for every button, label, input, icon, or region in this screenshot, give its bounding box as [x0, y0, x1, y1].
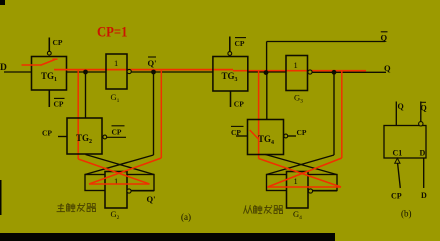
- svg-text:CP: CP: [231, 128, 241, 137]
- wire Q'bar down: [153, 72, 155, 155]
- svg-text:Q: Q: [421, 104, 427, 113]
- D flip-flop symbol block: [384, 126, 426, 159]
- wire junction down to TG4: [266, 73, 268, 120]
- pin CP of TG4 (right, bubble): [284, 128, 307, 138]
- svg-text:Q: Q: [381, 33, 388, 43]
- master latch loop wire (wide rectangle): [85, 175, 154, 191]
- wire diagonal right-to-left into master latch: [85, 155, 154, 175]
- wire junction down: [333, 72, 335, 155]
- label master latch (Chinese 主触发器): [57, 203, 96, 211]
- red vertical through TG4: [258, 71, 260, 159]
- svg-text:1: 1: [114, 58, 118, 68]
- svg-text:CP: CP: [42, 129, 52, 138]
- red diagonal left-to-right: [259, 159, 341, 188]
- dynamic edge triangle on C1: [395, 158, 400, 163]
- red crossover base wire: [268, 186, 342, 188]
- transmission gate TG2: [67, 118, 102, 154]
- svg-text:CP: CP: [54, 100, 64, 109]
- wire diagonal right-to-left into slave latch: [267, 155, 335, 175]
- junction at x=85.5: [83, 70, 88, 75]
- svg-text:CP: CP: [297, 128, 307, 137]
- wire junction down to TG2: [85, 72, 87, 118]
- svg-text:CP: CP: [234, 99, 244, 108]
- red switch path in TG1: [22, 59, 58, 65]
- node Qbar: [381, 32, 388, 43]
- red vertical feedback (right): [160, 70, 162, 158]
- wire TG4 bottom diagonal left-to-right: [266, 155, 337, 175]
- inverter G3: [286, 56, 312, 91]
- pin CP of TG3 (bottom): [231, 91, 245, 108]
- wire CP to block: [398, 163, 401, 188]
- pin Qbar of block: [419, 102, 427, 127]
- inverter G1: [106, 54, 131, 89]
- bubble of G4: [308, 189, 312, 193]
- left edge artifact: [0, 180, 2, 215]
- inverter G2: [105, 172, 127, 209]
- wire G2 bubble to loop corner: [131, 190, 154, 192]
- svg-text:(a): (a): [181, 212, 191, 222]
- transmission gate TG3: [213, 57, 248, 92]
- wire TG2 bottom diagonal left-to-right: [86, 155, 155, 175]
- svg-text:D: D: [420, 149, 426, 158]
- wire TG1 to G1: [67, 71, 107, 73]
- svg-text:1: 1: [294, 176, 298, 186]
- inverter G4: [287, 172, 309, 209]
- svg-text:C1: C1: [393, 149, 403, 158]
- svg-text:Q': Q': [147, 194, 156, 204]
- svg-text:Q': Q': [148, 58, 157, 68]
- red vertical through TG2: [77, 70, 79, 159]
- bottom black bar artifact: [0, 233, 335, 241]
- red diagonal right-to-left: [268, 158, 342, 187]
- red switch blade in TG4: [250, 130, 259, 139]
- red crossover base wire: [89, 183, 150, 185]
- svg-text:CP: CP: [112, 128, 122, 137]
- red diagonal left-to-right: [78, 159, 149, 184]
- label slave latch (Chinese 从触发器): [243, 205, 282, 214]
- wire G1 to TG3: [131, 71, 213, 73]
- svg-text:CP: CP: [391, 192, 402, 201]
- pin CP of TG1: [47, 38, 63, 56]
- svg-text:D: D: [421, 191, 427, 200]
- red vertical feedback (right): [341, 71, 343, 158]
- pin CPbar of TG2 (right, bubble): [103, 126, 126, 139]
- junction at x=266: [264, 70, 269, 75]
- transmission gate TG4: [248, 120, 284, 155]
- corner artifact top-left: [0, 0, 5, 5]
- pin CPbar of TG3 (top): [228, 37, 246, 56]
- svg-text:CP: CP: [235, 39, 245, 48]
- wire G4 bubble to loop corner: [313, 190, 337, 192]
- wire G3 to Q: [312, 71, 386, 73]
- svg-text:Q: Q: [384, 63, 391, 73]
- pin CPbar of TG4 (left): [231, 126, 248, 137]
- pin CP of TG2 (left): [42, 129, 67, 138]
- red diagonal right-to-left: [89, 158, 161, 184]
- svg-text:Q: Q: [398, 102, 404, 111]
- wire TG3 to G3: [248, 71, 286, 73]
- pin CPbar of TG1: [49, 90, 64, 109]
- svg-text:1: 1: [294, 60, 298, 70]
- bubble of G2: [127, 189, 131, 193]
- node Q'bar: [148, 57, 157, 74]
- junction at x=334: [332, 70, 337, 75]
- svg-text:CP=1: CP=1: [97, 25, 128, 41]
- svg-text:(b): (b): [401, 209, 412, 219]
- red bus wire (master half): [54, 69, 233, 71]
- slave latch loop wire (wide rectangle): [267, 175, 338, 191]
- transmission gate TG1: [32, 57, 67, 91]
- wire D to block: [423, 158, 425, 188]
- svg-text:CP: CP: [53, 38, 63, 47]
- wire junction up and right to Qbar: [267, 42, 385, 73]
- red bus wire (slave half): [233, 70, 366, 72]
- wire D to TG1: [4, 71, 32, 73]
- pin Q of block: [396, 102, 403, 126]
